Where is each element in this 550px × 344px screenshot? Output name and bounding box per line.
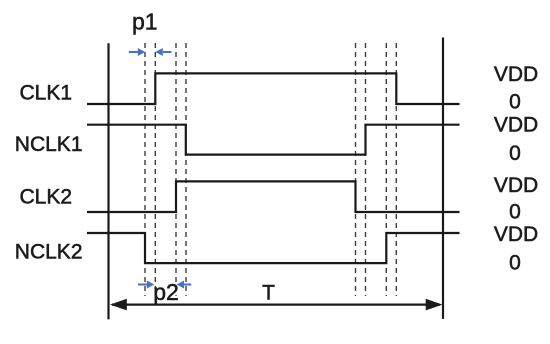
dashed guide line 4 (NCLK1 fall) <box>185 43 187 296</box>
svg-text:0: 0 <box>509 142 521 165</box>
dashed guide line 7 (NCLK2 rise) <box>385 43 387 296</box>
svg-text:0: 0 <box>509 252 521 275</box>
p2 left dimension arrow (points right at guide 2) <box>138 281 154 289</box>
svg-text:T: T <box>262 282 275 305</box>
right border vertical line <box>442 38 444 319</box>
p2 right dimension arrow (points left at guide 3) <box>177 281 192 289</box>
dashed guide line 1 (NCLK2 fall / p1 start) <box>144 43 146 296</box>
NCLK1 waveform trace <box>87 125 460 155</box>
svg-text:NCLK2: NCLK2 <box>15 241 83 264</box>
CLK2 waveform trace <box>87 181 460 212</box>
p1 left dimension arrow (points right at guide 1) <box>129 48 145 56</box>
T dimension line with arrowheads <box>110 299 443 311</box>
dashed guide line 3 (CLK2 rise / p2 end) <box>175 43 177 296</box>
svg-text:p1: p1 <box>132 9 158 35</box>
svg-text:VDD: VDD <box>494 223 538 246</box>
left border vertical line <box>107 43 109 319</box>
svg-text:0: 0 <box>509 201 521 224</box>
dashed guide line 2 (CLK1 rise / p1 end) <box>154 43 156 296</box>
svg-text:0: 0 <box>509 91 521 114</box>
svg-text:VDD: VDD <box>494 174 538 197</box>
CLK1 waveform trace <box>87 73 460 104</box>
svg-text:CLK1: CLK1 <box>19 81 72 104</box>
dashed guide line 5 (CLK2 fall) <box>355 43 357 296</box>
svg-text:NCLK1: NCLK1 <box>15 133 83 156</box>
svg-text:CLK2: CLK2 <box>19 186 72 209</box>
svg-text:p2: p2 <box>153 279 179 305</box>
p1 right dimension arrow (points left at guide 2) <box>155 48 171 56</box>
dashed guide line 8 (CLK1 fall) <box>395 43 397 296</box>
svg-text:VDD: VDD <box>494 114 538 137</box>
dashed guide line 6 (NCLK1 rise) <box>365 43 367 296</box>
NCLK2 waveform trace <box>87 233 460 263</box>
svg-text:VDD: VDD <box>494 63 538 86</box>
